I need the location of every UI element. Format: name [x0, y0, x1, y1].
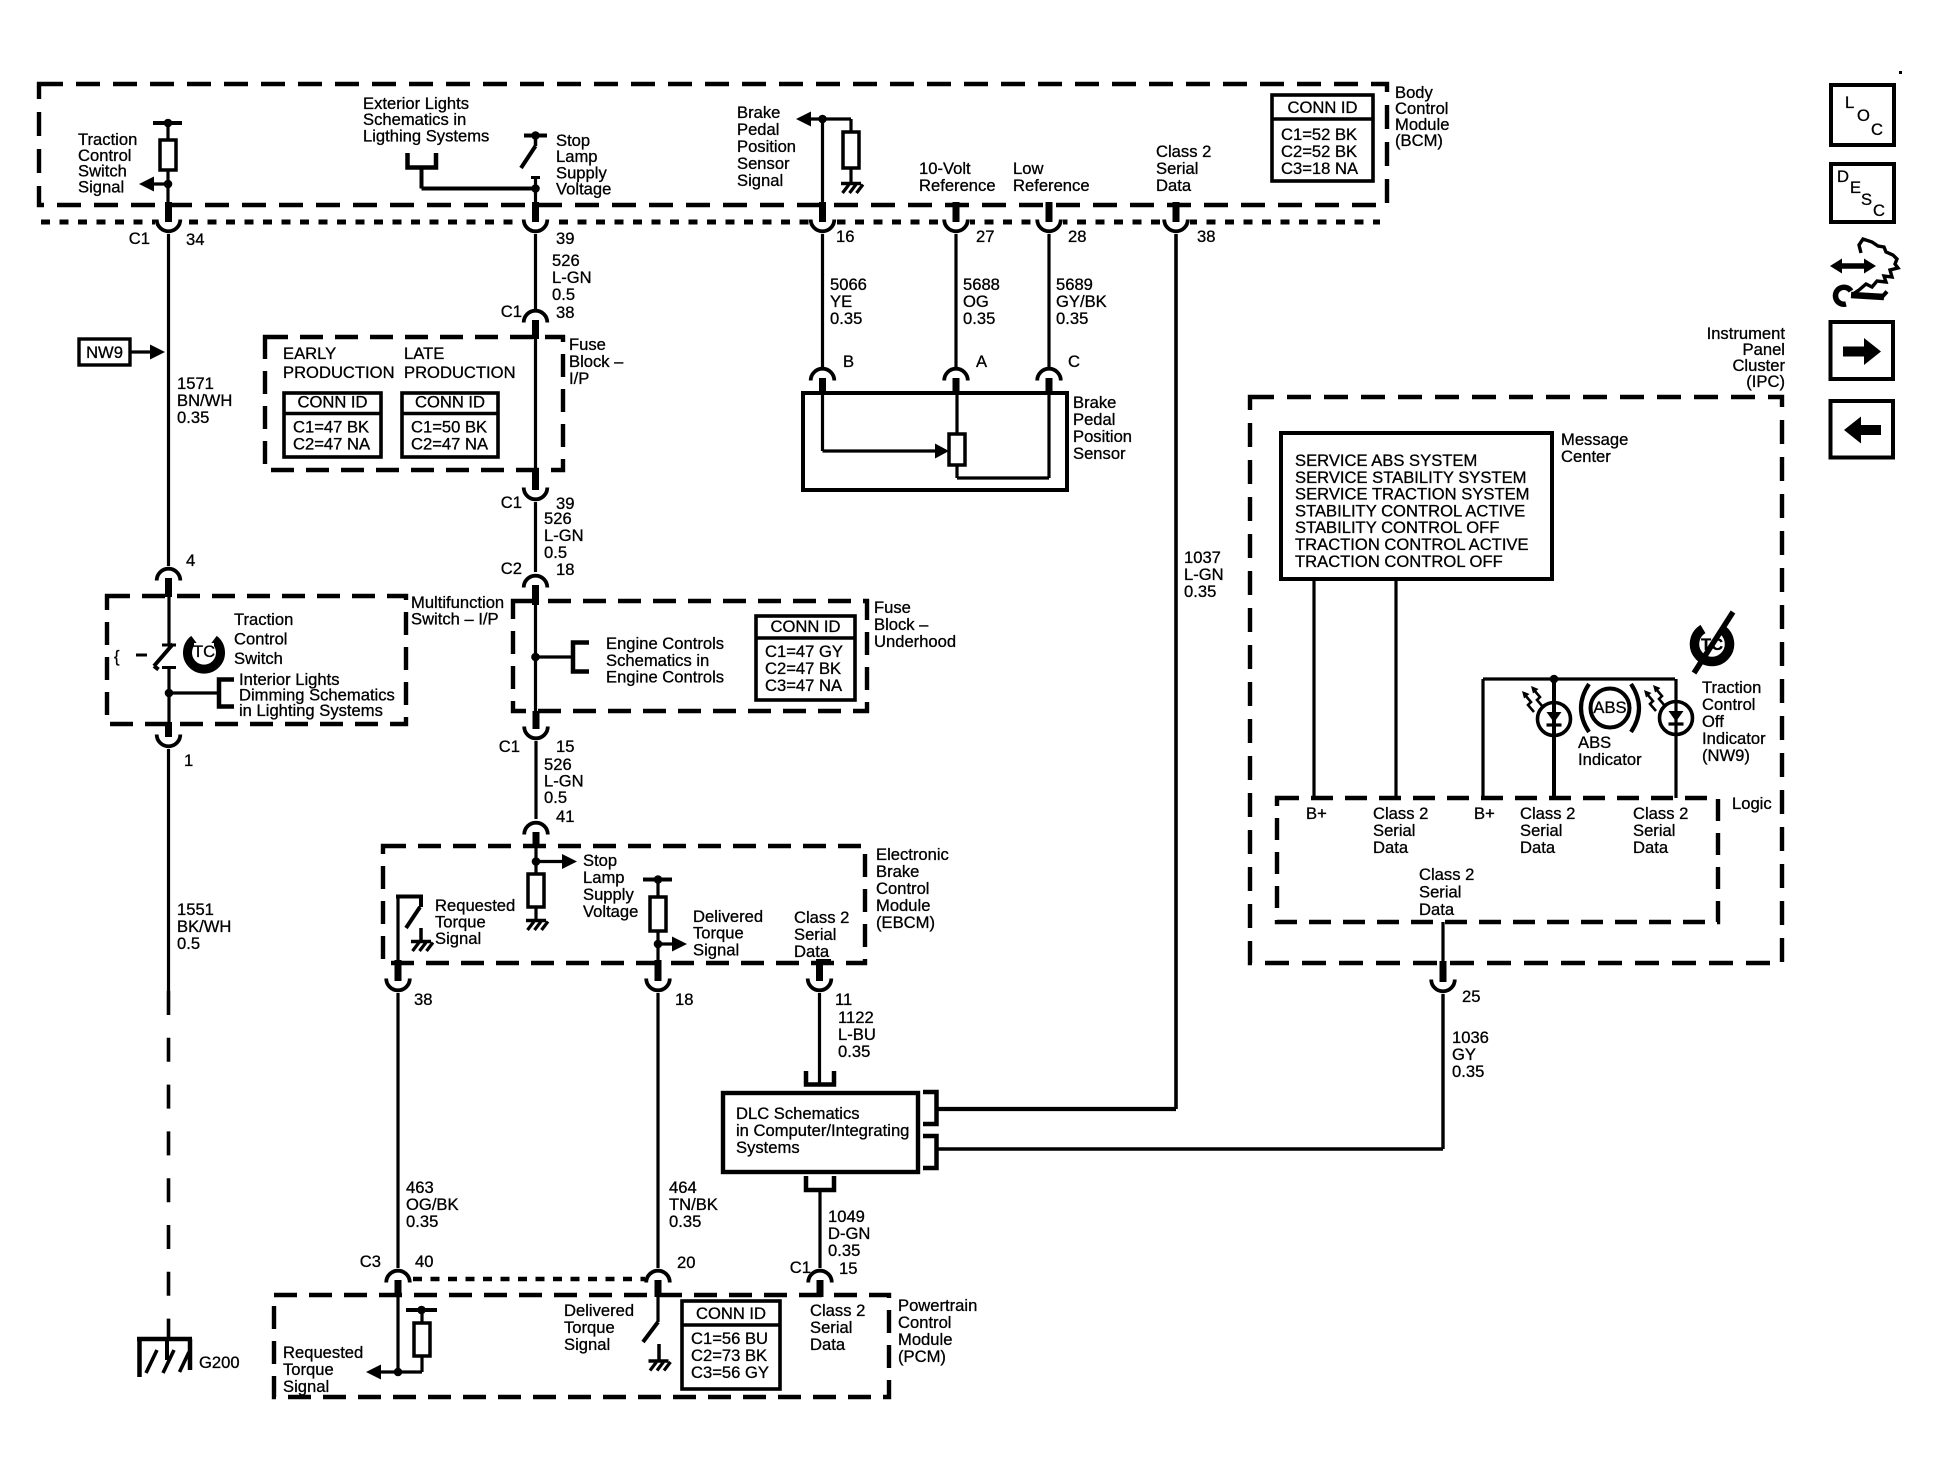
svg-text:0.35: 0.35	[1184, 582, 1216, 601]
wire 464 TN/BK to PCM 20	[656, 993, 659, 1268]
connector C1 pin 15 (multifunction switch bottom)	[533, 711, 540, 729]
wire: switch to lower contact	[167, 597, 170, 645]
connector pin 38 (EBCM)	[395, 960, 402, 981]
icon: DESC box	[1831, 164, 1894, 222]
bracket: exterior lights feed	[408, 153, 437, 168]
BCM connector boundary dotted line	[41, 220, 1380, 225]
svg-text:TC: TC	[1701, 635, 1723, 654]
svg-text:{: {	[114, 647, 120, 666]
svg-text:28: 28	[1068, 227, 1086, 246]
bracket: DLC right upper (to 1037)	[923, 1092, 937, 1124]
svg-text:34: 34	[186, 230, 204, 249]
module box: Powertrain Control Module (PCM) dashed outline	[274, 1295, 889, 1397]
svg-text:C3=18 NA: C3=18 NA	[1281, 159, 1359, 178]
svg-text:ABS: ABS	[1593, 698, 1626, 717]
wire: message center B+ leg	[1312, 579, 1315, 798]
solid box: DLC Schematics in Computer/Integrating Systems	[723, 1093, 918, 1172]
svg-text:0.5: 0.5	[552, 285, 575, 304]
node: stop lamp junction	[531, 184, 540, 193]
connector C1 pin 15 (PCM)	[808, 1271, 832, 1283]
svg-text:CONN ID: CONN ID	[297, 393, 367, 412]
Fuse Block Underhood CONN ID table	[756, 616, 855, 700]
svg-text:Data: Data	[1520, 838, 1556, 857]
svg-text:38: 38	[1197, 227, 1215, 246]
connector pin 39 (BCM)	[522, 216, 550, 237]
svg-text:Engine Controls: Engine Controls	[606, 668, 724, 687]
wire 5066 YE to sensor pin B	[821, 234, 824, 367]
wire 1551 BK/WH dashed part to G200	[167, 991, 171, 1339]
EARLY PRODUCTION CONN ID table	[284, 393, 381, 457]
svg-text:C1: C1	[499, 737, 520, 756]
svg-text:Reference: Reference	[1013, 176, 1090, 195]
svg-text:TRACTION CONTROL OFF: TRACTION CONTROL OFF	[1295, 552, 1503, 571]
svg-text:0.35: 0.35	[830, 309, 862, 328]
svg-text:0.35: 0.35	[1452, 1062, 1484, 1081]
svg-text:B: B	[843, 352, 854, 371]
wire inside fuse block ip	[534, 339, 537, 471]
wire: stop lamp switch to BCM edge	[534, 178, 537, 206]
svg-text:Data: Data	[1156, 176, 1192, 195]
svg-text:Indicator: Indicator	[1578, 750, 1642, 769]
svg-text:Signal: Signal	[435, 929, 481, 948]
svg-text:(EBCM): (EBCM)	[876, 913, 935, 932]
svg-text:Control: Control	[234, 630, 288, 649]
delivered torque resistor in EBCM	[643, 878, 672, 882]
svg-text:0.35: 0.35	[963, 309, 995, 328]
svg-text:CONN ID: CONN ID	[1287, 98, 1357, 117]
svg-text:PRODUCTION: PRODUCTION	[283, 363, 395, 382]
connector C1 pin 34 (BCM)	[155, 216, 183, 237]
svg-text:L: L	[1845, 93, 1854, 112]
svg-text:Signal: Signal	[564, 1335, 610, 1354]
wire: message center class 2 leg	[1394, 579, 1397, 798]
wire: brake pedal signal to BCM edge	[821, 119, 824, 206]
svg-text:C1: C1	[129, 229, 150, 248]
wire: exterior lights feed to stop lamp node	[420, 168, 424, 189]
svg-text:Systems: Systems	[736, 1138, 800, 1157]
connector C2 pin 18 (multifunction switch top)	[524, 576, 548, 588]
potentiometer element inside sensor	[955, 394, 958, 434]
node: stop lamp supply junction in EBCM with right arrow	[532, 857, 541, 866]
svg-text:in Lighting Systems: in Lighting Systems	[239, 701, 383, 720]
connector C3 pin 40 (PCM)	[386, 1271, 410, 1283]
svg-text:Data: Data	[1633, 838, 1669, 857]
svg-text:Class 2: Class 2	[1419, 865, 1474, 884]
svg-text:G200: G200	[199, 1353, 240, 1372]
svg-text:B+: B+	[1474, 804, 1495, 823]
wire: requested torque to EBCM edge	[396, 897, 399, 963]
icon: harness repair tool (double arrow and wrench)	[1841, 263, 1865, 269]
traction control switch blade	[162, 644, 176, 647]
chassis ground (EBCM stop lamp)	[526, 919, 546, 923]
NW9 reference box with arrow	[79, 339, 130, 365]
svg-text:4: 4	[186, 551, 195, 570]
connector 1 (traction control switch bottom)	[165, 722, 172, 737]
wire: junction down to BCM edge	[166, 184, 169, 206]
resistor: stop lamp supply pull in EBCM	[528, 874, 544, 907]
LED traction control off indicator wire	[1674, 679, 1677, 798]
light arrows (TC off indicator)	[1656, 689, 1665, 706]
icon: LOC box	[1831, 85, 1894, 145]
svg-text:C1: C1	[501, 302, 522, 321]
TC-off symbol (horseshoe with slash)	[1694, 629, 1729, 662]
wire 1049 D-GN from DLC to PCM 15	[818, 1192, 821, 1268]
svg-text:NW9: NW9	[86, 343, 123, 362]
svg-text:27: 27	[976, 227, 994, 246]
svg-text:18: 18	[556, 560, 574, 579]
icon: left arrow box	[1831, 401, 1894, 458]
resistor: traction control switch signal pull-up inside BCM	[153, 121, 182, 125]
module box: Fuse Block - I/P dashed outline	[265, 337, 563, 470]
PCM CONN ID table	[682, 1301, 780, 1389]
svg-text:Switch – I/P: Switch – I/P	[411, 610, 499, 629]
connector pin 25 (IPC)	[1440, 961, 1447, 982]
indicator supply bus wire in IPC	[1483, 677, 1675, 680]
svg-text:Reference: Reference	[919, 176, 996, 195]
light arrows (ABS indicator)	[1534, 690, 1543, 707]
svg-text:I/P: I/P	[569, 369, 589, 388]
potentiometer wiper wire inside sensor (pin B)	[821, 394, 824, 451]
svg-text:A: A	[976, 352, 988, 371]
module box: Traction Control Switch dashed outline	[107, 596, 406, 724]
svg-text:Data: Data	[794, 942, 830, 961]
node: traction control switch signal junction with left arrow	[164, 180, 173, 189]
svg-text:(NW9): (NW9)	[1702, 746, 1750, 765]
connector pin 18 (EBCM)	[655, 960, 662, 981]
svg-text:C2=47 NA: C2=47 NA	[293, 435, 371, 454]
svg-text:41: 41	[556, 807, 574, 826]
ABS symbol circle with parentheses	[1591, 689, 1630, 728]
wire 1036 GY from IPC 25 to DLC	[1441, 994, 1444, 1149]
solid box: Message Center	[1281, 433, 1552, 579]
svg-text:C1: C1	[501, 493, 522, 512]
svg-text:C: C	[1873, 201, 1885, 220]
svg-text:18: 18	[675, 990, 693, 1009]
module box: Logic dashed outline inside IPC	[1277, 798, 1718, 922]
bracket: Interior Lights Dimming Schematics in Lighting Systems	[219, 680, 234, 707]
node: brake pedal signal junction with left arrow in BCM	[800, 117, 851, 120]
chassis ground (PCM delivered torque)	[649, 1359, 669, 1363]
requested torque signal switch in EBCM	[396, 895, 423, 899]
svg-text:0.35: 0.35	[177, 408, 209, 427]
svg-text:E: E	[1850, 178, 1861, 197]
svg-text:C3: C3	[360, 1252, 381, 1271]
wire resistor to chassis ground	[534, 907, 537, 919]
stop lamp switch inside BCM	[524, 134, 547, 138]
svg-text:Center: Center	[1561, 447, 1611, 466]
ground G200 symbol	[137, 1337, 192, 1342]
svg-text:B+: B+	[1306, 804, 1327, 823]
svg-text:0.35: 0.35	[838, 1042, 870, 1061]
svg-text:(IPC): (IPC)	[1746, 372, 1785, 391]
svg-text:Sensor: Sensor	[1073, 444, 1126, 463]
TC symbol (traction control horseshoe) in switch	[188, 640, 221, 670]
svg-text:Serial: Serial	[1419, 883, 1461, 902]
LATE PRODUCTION CONN ID table	[402, 393, 498, 457]
module box: Electronic Brake Control Module (EBCM) dashed outline	[383, 846, 865, 963]
wire 1122 L-BU to DLC	[818, 993, 821, 1084]
svg-text:C2=47 NA: C2=47 NA	[411, 435, 489, 454]
svg-text:0.35: 0.35	[406, 1212, 438, 1231]
svg-text:39: 39	[556, 229, 574, 248]
svg-text:0.35: 0.35	[828, 1241, 860, 1260]
svg-text:CONN ID: CONN ID	[696, 1304, 766, 1323]
wire 1037 L-GN from BCM 38 to DLC	[1174, 234, 1178, 1109]
svg-text:Traction: Traction	[234, 610, 293, 629]
LED: traction control off indicator	[1660, 702, 1693, 735]
BCM CONN ID table	[1272, 95, 1373, 181]
connector C1 pin 38 (fuse block ip top)	[524, 311, 548, 323]
bracket: DLC bottom	[806, 1176, 834, 1190]
svg-text:(PCM): (PCM)	[898, 1347, 946, 1366]
bracket: Engine Controls Schematics in Engine Controls	[573, 643, 589, 672]
connector pin 27 (BCM)	[942, 216, 970, 237]
svg-text:Data: Data	[810, 1335, 846, 1354]
connector pin A (brake pedal position sensor)	[944, 369, 968, 381]
svg-text:15: 15	[839, 1259, 857, 1278]
svg-text:0.5: 0.5	[544, 788, 567, 807]
svg-text:PRODUCTION: PRODUCTION	[404, 363, 516, 382]
wire inside multifunction switch	[534, 605, 537, 712]
chassis ground (BCM brake pedal)	[841, 182, 861, 186]
bracket: DLC right lower (to 1036)	[923, 1136, 937, 1168]
svg-text:CONN ID: CONN ID	[415, 393, 485, 412]
module box: Multifunction Switch / Fuse Block Underhood dashed outline	[513, 601, 867, 711]
svg-text:C3=47 NA: C3=47 NA	[765, 676, 843, 695]
solid box: Brake Pedal Position Sensor outline	[803, 393, 1067, 490]
module box: Body Control Module (BCM) dashed outline	[39, 84, 1387, 205]
svg-text:38: 38	[556, 303, 574, 322]
svg-text:0.35: 0.35	[669, 1212, 701, 1231]
connector pin 20 (PCM)	[646, 1271, 670, 1283]
wire 526 L-GN segment multifunction to EBCM	[534, 741, 537, 819]
svg-text:(BCM): (BCM)	[1395, 131, 1443, 150]
resistor: brake pedal signal pull-up in BCM	[849, 119, 852, 132]
svg-text:LATE: LATE	[404, 344, 444, 363]
svg-text:C2: C2	[501, 559, 522, 578]
svg-text:C: C	[1871, 120, 1883, 139]
chassis ground (requested torque switch)	[419, 928, 423, 940]
wire 5688 OG to sensor pin A	[954, 234, 957, 367]
icon: right arrow box	[1831, 322, 1894, 379]
wire pin 40 into PCM	[396, 1297, 399, 1372]
svg-text:CONN ID: CONN ID	[770, 617, 840, 636]
svg-text:S: S	[1861, 190, 1872, 209]
svg-text:40: 40	[415, 1252, 433, 1271]
svg-text:Underhood: Underhood	[874, 632, 956, 651]
svg-text:Ligthing Systems: Ligthing Systems	[363, 126, 489, 145]
connector C1 pin 39 (fuse block ip bottom)	[532, 469, 539, 490]
svg-text:0.35: 0.35	[1056, 309, 1088, 328]
resistor: requested torque pull-up in PCM	[398, 1370, 422, 1373]
svg-text:C1: C1	[790, 1258, 811, 1277]
connector pin B (brake pedal position sensor)	[811, 369, 835, 381]
node: requested torque junction in PCM with left arrow	[394, 1368, 403, 1377]
svg-text:Signal: Signal	[737, 171, 783, 190]
svg-text:TC: TC	[193, 642, 215, 661]
svg-text:Data: Data	[1419, 900, 1455, 919]
wire resistor to chassis ground in BCM	[849, 168, 852, 182]
connector pin 28 (BCM)	[1035, 216, 1063, 237]
svg-text:Logic: Logic	[1732, 794, 1772, 813]
wire 526 L-GN segment fuse to multifunction	[534, 502, 537, 572]
wire 1551 BK/WH solid part	[167, 749, 170, 991]
bracket: DLC top	[806, 1071, 834, 1085]
svg-text:25: 25	[1462, 987, 1480, 1006]
svg-text:Voltage: Voltage	[556, 180, 611, 199]
svg-text:16: 16	[836, 227, 854, 246]
svg-text:15: 15	[556, 737, 574, 756]
svg-text:C: C	[1068, 352, 1080, 371]
svg-text:O: O	[1857, 106, 1870, 125]
wire 1571 BN/WH from C1-34 down to connector 4	[167, 234, 170, 566]
wire stop lamp supply inside EBCM	[534, 848, 537, 874]
registration dot	[1899, 71, 1902, 74]
svg-text:1: 1	[184, 751, 193, 770]
svg-text:Voltage: Voltage	[583, 902, 638, 921]
svg-text:Signal: Signal	[78, 177, 124, 196]
PCM connector boundary dotted line	[413, 1277, 645, 1281]
node: engine controls tap	[531, 653, 540, 662]
wire 5689 GY/BK to sensor pin C	[1047, 234, 1050, 367]
svg-text:Signal: Signal	[283, 1377, 329, 1396]
connector pin 41 (EBCM top)	[524, 823, 548, 835]
node: delivered torque junction with right arrow	[654, 940, 663, 949]
connector pin 38 (BCM class 2)	[1162, 216, 1190, 237]
wire: logic to IPC pin 25	[1441, 922, 1444, 964]
svg-text:38: 38	[414, 990, 432, 1009]
svg-text:Signal: Signal	[693, 940, 739, 959]
module box: Instrument Panel Cluster (IPC) dashed outline	[1250, 397, 1782, 963]
LED ABS indicator wire	[1552, 679, 1556, 798]
connector pin C (brake pedal position sensor)	[1037, 369, 1061, 381]
wire 526 L-GN segment BCM to fuse block	[534, 234, 537, 309]
svg-text:Data: Data	[1373, 838, 1409, 857]
node: interior lights dimming tap	[165, 689, 174, 698]
wire 463 OG/BK to PCM 40	[396, 993, 399, 1268]
svg-text:C3=56 GY: C3=56 GY	[691, 1363, 769, 1382]
connector pin 11 (EBCM)	[818, 959, 831, 965]
svg-text:0.5: 0.5	[177, 934, 200, 953]
svg-text:D: D	[1837, 167, 1849, 186]
connector pin 16 (BCM)	[809, 216, 837, 237]
LED: ABS indicator	[1538, 703, 1571, 736]
connector 4 (traction control switch)	[157, 569, 181, 581]
wire: resistor to junction	[166, 170, 169, 184]
mechanical link dash	[136, 654, 147, 657]
svg-text:20: 20	[677, 1253, 695, 1272]
svg-text:Switch: Switch	[234, 649, 283, 668]
svg-text:EARLY: EARLY	[283, 344, 336, 363]
delivered torque switch in PCM	[656, 1297, 659, 1322]
svg-text:11: 11	[835, 990, 852, 1009]
